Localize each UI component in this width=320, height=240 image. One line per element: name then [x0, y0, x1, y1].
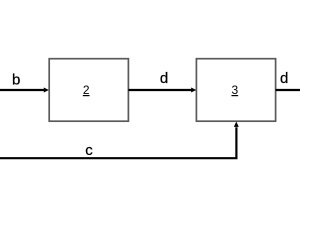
- svg-text:d: d: [160, 70, 168, 87]
- svg-text:2: 2: [83, 83, 90, 97]
- svg-text:b: b: [12, 71, 20, 88]
- svg-text:d: d: [280, 70, 288, 87]
- svg-text:c: c: [85, 142, 93, 159]
- svg-text:3: 3: [231, 83, 238, 97]
